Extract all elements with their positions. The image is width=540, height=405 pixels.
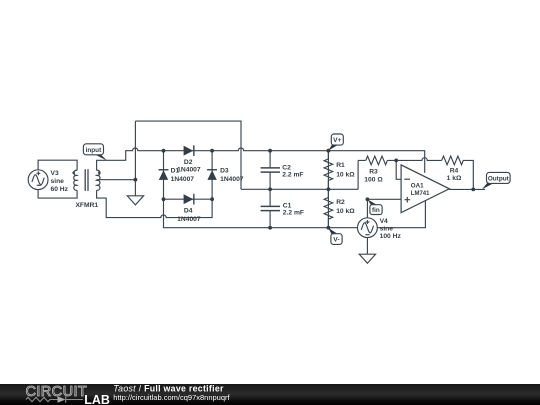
- node R1 top (V+): [327, 149, 331, 153]
- svg-text:sine: sine: [51, 178, 65, 185]
- flag input: [83, 144, 107, 161]
- node output junction R4: [471, 188, 475, 192]
- node C2-C1 mid: [268, 187, 272, 191]
- svg-text:1N4007: 1N4007: [177, 216, 201, 223]
- capacitor C1: [261, 206, 280, 210]
- svg-text:1N4007: 1N4007: [220, 176, 244, 183]
- resistor R1: [324, 151, 333, 190]
- wire V4 bottom lead to ground: [366, 237, 368, 254]
- svg-text:100 Ω: 100 Ω: [364, 176, 383, 183]
- svg-text:LM741: LM741: [411, 191, 430, 197]
- wire transformer secondary bottom to bridge node B (with hop): [97, 190, 213, 217]
- node bridge V+: [210, 149, 214, 153]
- svg-text:C2: C2: [282, 164, 291, 171]
- capacitor C2: [261, 168, 280, 172]
- svg-text:Taost / Full wave rectifier: Taost / Full wave rectifier: [113, 384, 224, 394]
- svg-text:sine: sine: [380, 226, 394, 233]
- wire V+ rail: bridge to op-amp top supply (hops over vertical ground drop): [164, 148, 425, 173]
- diode D1: [159, 170, 169, 180]
- svg-text:V-: V-: [333, 237, 339, 244]
- wire top rail to mid rail (ground net): [135, 121, 241, 189]
- svg-text:1N4007: 1N4007: [177, 167, 201, 174]
- wire R3 to inverting input and feedback (hop over supply drop): [358, 158, 473, 190]
- svg-text:R3: R3: [369, 168, 378, 175]
- svg-text:2.2 mF: 2.2 mF: [283, 210, 304, 217]
- svg-text:D2: D2: [184, 159, 193, 166]
- diode D2: [184, 145, 194, 156]
- wire V3 bottom to transformer primary bottom: [38, 189, 77, 198]
- flag Output: [482, 172, 510, 189]
- wire inverting input lead: [396, 160, 401, 179]
- wire center tap to ground line: [97, 179, 136, 181]
- resistor R3: [366, 156, 388, 165]
- node R1-R2 mid: [327, 187, 331, 191]
- wire R1 branch: [327, 151, 329, 190]
- diode D4: [184, 194, 194, 205]
- footer bar: [0, 384, 540, 405]
- op-amp OA1: [401, 165, 449, 213]
- node center tap junction: [134, 178, 138, 182]
- svg-text:1 kΩ: 1 kΩ: [447, 175, 462, 182]
- svg-text:60 Hz: 60 Hz: [51, 186, 69, 193]
- wire C2 branch: [269, 151, 271, 190]
- node R3/R4 inverting input junction: [394, 159, 398, 163]
- node C1 bottom: [268, 226, 272, 230]
- svg-text:R2: R2: [336, 199, 345, 206]
- wire V- rail: bridge node down, right to op-amp bottom supply: [164, 199, 426, 228]
- svg-text:2.2 mF: 2.2 mF: [282, 172, 303, 179]
- ground symbol (center tap): [127, 196, 143, 205]
- flag fin: [368, 200, 383, 215]
- wire bridge D3 branch vertical right: [211, 151, 213, 200]
- wire bridge bottom D4 horizontal: [164, 198, 213, 200]
- wire op-amp output: [449, 188, 485, 190]
- wire V4 top lead: [366, 199, 368, 218]
- node bridge AC2: [210, 197, 214, 201]
- resistor R2: [324, 189, 333, 227]
- svg-text:D4: D4: [184, 207, 193, 214]
- node bridge AC1: [162, 149, 166, 153]
- svg-text:fin: fin: [372, 207, 380, 214]
- svg-text:V3: V3: [51, 170, 59, 177]
- svg-text:Output: Output: [488, 175, 510, 182]
- wire V3 top to transformer primary top: [38, 160, 77, 170]
- wire riser mid rail to R3 left: [357, 160, 359, 189]
- svg-text:10 kΩ: 10 kΩ: [336, 208, 355, 215]
- diode D3: [207, 170, 217, 180]
- svg-text:V4: V4: [380, 218, 388, 225]
- svg-text:100 Hz: 100 Hz: [380, 233, 402, 240]
- node R2 bottom (V-): [327, 226, 331, 230]
- wire non-inverting input from V4: [367, 198, 401, 200]
- flag V-: [328, 228, 342, 245]
- svg-text:1N4007: 1N4007: [171, 176, 195, 183]
- svg-text:LAB: LAB: [84, 393, 110, 405]
- node fin junction: [366, 197, 370, 201]
- wire ground vertical from top rail to ground symbol: [134, 121, 136, 196]
- svg-text:R1: R1: [336, 162, 345, 169]
- svg-text:input: input: [86, 147, 102, 154]
- svg-text:10 kΩ: 10 kΩ: [336, 171, 355, 178]
- transformer XFMR1: [72, 169, 100, 191]
- resistor R4: [442, 156, 465, 165]
- svg-text:http://circuitlab.com/cq97x8nn: http://circuitlab.com/cq97x8nnpuqrf: [113, 393, 230, 402]
- svg-text:CIRCUIT: CIRCUIT: [26, 384, 88, 400]
- svg-text:D3: D3: [220, 168, 229, 175]
- svg-text:C1: C1: [283, 202, 292, 209]
- ground symbol (V4): [359, 254, 375, 263]
- svg-text:V+: V+: [333, 137, 341, 144]
- svg-text:XFMR1: XFMR1: [75, 202, 98, 209]
- voltage source V3: [28, 170, 48, 190]
- node bridge V-: [162, 197, 166, 201]
- wire mid rail: [241, 188, 358, 190]
- wire R2 branch: [327, 189, 329, 227]
- wire transformer secondary top to bridge node A (with hop over ground line): [97, 148, 164, 170]
- svg-text:OA1: OA1: [411, 183, 424, 190]
- node C2 top: [268, 149, 272, 153]
- svg-text:R4: R4: [450, 167, 459, 174]
- voltage source V4: [358, 218, 378, 238]
- wire bridge D1-D4 branch vertical left: [163, 151, 165, 200]
- logo resistor-diode glyph: [26, 396, 83, 403]
- wire C1 branch: [269, 189, 271, 227]
- flag V+: [328, 134, 343, 151]
